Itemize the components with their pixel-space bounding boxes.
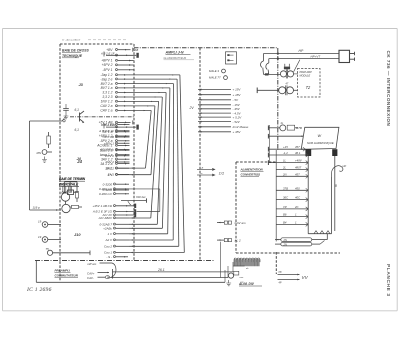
- svg-text:+ 5,2V: + 5,2V: [233, 115, 243, 119]
- svg-text:CAV-: CAV-: [87, 276, 94, 280]
- svg-text:TECHNIQUE: TECHNIQUE: [62, 54, 83, 58]
- svg-text:457: 457: [295, 145, 300, 149]
- wire loop 7: [151, 101, 159, 218]
- separator dash-dot J3/J4: [70, 116, 134, 118]
- transistor Q1: [61, 193, 69, 201]
- svg-text:AMPLI J-N: AMPLI J-N: [165, 51, 184, 55]
- speaker W SUB HARMONIQUE: [301, 127, 339, 149]
- boundary dash-dot vertical: [277, 48, 279, 150]
- svg-text:450: 450: [295, 186, 300, 190]
- wire 116p feed: [30, 209, 62, 211]
- alim row 37B 450: [276, 189, 308, 191]
- bus vertical left: [269, 125, 271, 163]
- svg-text:CONVERTISS: CONVERTISS: [241, 172, 260, 176]
- supply row - 45V: [198, 108, 231, 110]
- svg-text:116 p: 116 p: [33, 205, 41, 209]
- svg-text:+45V 1 AB CD: +45V 1 AB CD: [93, 204, 113, 208]
- svg-text:36C: 36C: [283, 196, 289, 200]
- alim row -1,2 46.1: [267, 153, 269, 158]
- wire speaker right down: [334, 156, 336, 231]
- terminal bar left: [305, 149, 311, 156]
- dash-dot boundary bottom: [35, 260, 214, 262]
- supply row - 15V: [198, 104, 231, 106]
- connector male box: [226, 52, 237, 64]
- svg-text:uwc: uwc: [240, 277, 245, 279]
- junction chevrons: [314, 231, 330, 234]
- svg-text:J4: J4: [77, 159, 82, 164]
- wire cluster top link: [64, 181, 77, 183]
- svg-text:HP am: HP am: [88, 262, 97, 266]
- svg-text:1: 1: [295, 213, 297, 217]
- svg-text:COMMUTATEUR: COMMUTATEUR: [55, 274, 79, 278]
- svg-text:0-3200: 0-3200: [103, 182, 113, 186]
- svg-text:ar: ar: [201, 173, 203, 175]
- svg-text:HF: HF: [343, 164, 347, 168]
- wire left L-bus: [29, 121, 31, 210]
- svg-text:1/1: 1/1: [219, 170, 225, 175]
- svg-text:-3ap 2 e: -3ap 2 e: [100, 77, 112, 81]
- terminal tick B7B: [267, 125, 269, 130]
- svg-text:MN: MN: [37, 151, 42, 155]
- svg-text:AC/ AB2V: AC/ AB2V: [98, 216, 113, 220]
- supply row + 18V: [198, 94, 231, 96]
- ground divider: [226, 280, 231, 286]
- svg-text:2NV 2: 2NV 2: [104, 160, 114, 164]
- svg-text:VP: VP: [283, 205, 287, 209]
- svg-text:ALIM. DIV: ALIM. DIV: [238, 282, 255, 286]
- svg-text:-5PV 1: -5PV 1: [102, 68, 112, 72]
- boundary solid vertical: [275, 150, 277, 241]
- svg-text:+48V: +48V: [295, 159, 303, 163]
- svg-text:2V: 2V: [189, 106, 195, 110]
- junction CAV am: [224, 221, 227, 224]
- svg-text:2C: 2C: [294, 205, 300, 209]
- enclosure MODULE 72: [298, 69, 321, 98]
- resistor left vertical: [47, 136, 51, 144]
- svg-text:3A 1 2: 3A 1 2: [105, 167, 114, 171]
- svg-text:HP+VT: HP+VT: [311, 54, 322, 58]
- svg-text:SUB HARMONIQUE: SUB HARMONIQUE: [307, 141, 334, 145]
- svg-text:46.1: 46.1: [295, 151, 301, 155]
- svg-text:2N: 2N: [283, 238, 287, 242]
- svg-text:J10: J10: [74, 232, 81, 237]
- wire riser low: [220, 242, 222, 278]
- terminal bar right: [332, 149, 337, 156]
- transistor B7B: [280, 125, 286, 131]
- svg-text:AB: AB: [134, 48, 139, 52]
- svg-text:HP: HP: [299, 49, 304, 53]
- svg-text:BAIE DE TERMIN: BAIE DE TERMIN: [59, 177, 86, 181]
- svg-text:A B 2 E 1F: A B 2 E 1F: [100, 51, 115, 55]
- svg-text:CAV+: CAV+: [87, 271, 95, 275]
- loop curve preampli: [111, 263, 116, 277]
- svg-text:B: B: [335, 184, 338, 188]
- svg-text:+B: +B: [201, 167, 204, 169]
- svg-text:19: 19: [38, 220, 42, 224]
- cable pair 2N 2N: [281, 238, 312, 242]
- svg-text:B6: B6: [283, 213, 287, 217]
- supply row - 5V: [198, 99, 231, 101]
- resistor cluster top b: [69, 186, 72, 192]
- alim row 2L 4807: [276, 169, 308, 171]
- svg-text:CAV 2 a: CAV 2 a: [100, 104, 112, 108]
- svg-text:A2 V: A2 V: [104, 238, 113, 242]
- node dot: [63, 120, 65, 122]
- svg-text:CK 736 — INTERCONNEXION: CK 736 — INTERCONNEXION: [386, 51, 391, 127]
- aux return corner: [129, 188, 160, 190]
- svg-text:IC 1 2696: IC 1 2696: [26, 287, 52, 293]
- ground MN: [42, 157, 47, 163]
- resistor B7B: [287, 125, 295, 130]
- svg-text:ALIMENTATION: ALIMENTATION: [240, 167, 264, 171]
- wire to T1: [265, 73, 269, 75]
- wire HP+VT: [269, 58, 339, 60]
- svg-text:PRINCIPALE: PRINCIPALE: [59, 182, 79, 186]
- svg-text:2mV Masse: 2mV Masse: [232, 125, 249, 129]
- alim row B4 1: [276, 223, 308, 225]
- svg-text:3,3 2 3: 3,3 2 3: [102, 95, 112, 99]
- svg-text:+15: +15: [283, 145, 288, 149]
- wire loop 6: [157, 97, 162, 224]
- boundary dashed lower: [275, 252, 277, 274]
- svg-text:- S -: - S -: [106, 255, 112, 259]
- junction bar preampli: [112, 269, 114, 279]
- svg-text:PLANCHE 3: PLANCHE 3: [385, 264, 391, 297]
- svg-text:2N: 2N: [282, 172, 288, 176]
- wire HP: [264, 53, 340, 55]
- wire loop 4: [168, 88, 170, 234]
- svg-text:MALE 77: MALE 77: [209, 76, 221, 80]
- wire loop 5: [162, 93, 166, 229]
- resistor cluster top a: [63, 186, 66, 192]
- alim row 2N 457: [276, 175, 308, 177]
- svg-text:47: 47: [286, 83, 289, 86]
- wire loop 9: [146, 111, 152, 169]
- ground under capacitor: [64, 113, 69, 119]
- svg-text:+5PV 1: +5PV 1: [104, 141, 115, 145]
- svg-text:2N: 2N: [283, 243, 287, 247]
- alim row 1L +48V: [267, 160, 269, 165]
- svg-text:0-300 mV: 0-300 mV: [99, 192, 113, 196]
- svg-text:40C: 40C: [295, 196, 301, 200]
- supply row + 5,2V: [198, 116, 231, 118]
- svg-text:457: 457: [295, 172, 300, 176]
- transistor Q2: [62, 204, 70, 212]
- svg-text:+BPV 1: +BPV 1: [101, 59, 112, 63]
- svg-text:37B: 37B: [283, 186, 288, 190]
- supply row - 52V: [198, 121, 231, 123]
- wire bus c with corner: [36, 281, 225, 283]
- transformer T1: [280, 71, 286, 77]
- svg-text:4807: 4807: [295, 166, 302, 170]
- svg-text:J3: J3: [79, 82, 84, 87]
- svg-text:B7B: B7B: [296, 126, 302, 130]
- svg-text:-1,2: -1,2: [283, 151, 288, 155]
- winding comb: [234, 258, 260, 266]
- supply row - 4,5V: [198, 112, 231, 114]
- svg-text:PREAMPLI: PREAMPLI: [55, 268, 71, 272]
- svg-text:AG/ BBVc: AG/ BBVc: [99, 148, 114, 152]
- wire bottom join: [308, 233, 331, 235]
- svg-text:CAV 1 a: CAV 1 a: [100, 109, 112, 113]
- svg-text:HF: HF: [279, 271, 283, 274]
- svg-text:2A 1: 2A 1: [107, 173, 115, 177]
- svg-text:PHV 2: PHV 2: [105, 154, 114, 158]
- svg-text:AL 2: AL 2: [234, 239, 241, 243]
- contact hook b: [268, 59, 270, 63]
- resistor cluster mid: [76, 192, 79, 199]
- svg-text:+ 45V: + 45V: [233, 130, 242, 134]
- svg-text:1NV 1 2: 1NV 1 2: [101, 100, 113, 104]
- wire speaker left down: [307, 156, 309, 234]
- junction blobs: [277, 53, 279, 55]
- svg-text:6,1: 6,1: [75, 108, 80, 112]
- svg-text:26.1: 26.1: [157, 268, 165, 272]
- capacitor C: [65, 104, 67, 108]
- svg-text:VV: VV: [302, 275, 309, 280]
- junction AL 2: [224, 239, 227, 242]
- supply row 2mV Masse: [198, 126, 231, 128]
- supply row + 15V: [198, 89, 231, 91]
- svg-text:19: 19: [38, 235, 42, 239]
- transformer T2: [279, 87, 286, 94]
- enclosure ALIMENTATION: [235, 162, 237, 253]
- alim row +15 457: [267, 147, 269, 152]
- wire loop 2: [177, 79, 179, 246]
- contact hook a: [263, 54, 265, 62]
- svg-text:BVT 1 a: BVT 1 a: [101, 86, 113, 90]
- svg-text:B4: B4: [283, 220, 287, 224]
- wire T1 up to HP+VT: [294, 60, 300, 72]
- svg-text:TI - BV G.TBV/T: TI - BV G.TBV/T: [62, 39, 81, 42]
- supply row + 45V: [198, 131, 231, 133]
- svg-text:MODULE: MODULE: [300, 75, 311, 78]
- wire bus a: [113, 271, 234, 273]
- svg-text:Cau 2: Cau 2: [104, 245, 112, 249]
- svg-text:1 V: 1 V: [107, 232, 113, 236]
- svg-text:6,1: 6,1: [75, 128, 80, 132]
- row to speaker slant: [267, 134, 269, 139]
- plug P1: [339, 50, 350, 62]
- svg-text:+5V 1 AB: +5V 1 AB: [101, 123, 114, 127]
- cable bead on CAV-: [105, 276, 109, 279]
- alim row VP 2C: [276, 208, 308, 210]
- wire HF drop: [331, 177, 333, 234]
- svg-text:+2ABc: +2ABc: [103, 227, 112, 231]
- svg-text:4P: 4P: [279, 281, 282, 284]
- svg-text:BAIE DE CROSS: BAIE DE CROSS: [62, 49, 89, 53]
- svg-text:- 5V: - 5V: [233, 98, 240, 102]
- enclosure BAIE DE CROSS dashed box: [59, 44, 61, 281]
- resistor divider: [234, 271, 239, 275]
- svg-text:3,3 1 2: 3,3 1 2: [102, 91, 112, 95]
- svg-text:W: W: [318, 134, 322, 138]
- hook HF: [332, 166, 343, 177]
- svg-text:72: 72: [306, 85, 311, 90]
- svg-text:GLASSOBATTEUR: GLASSOBATTEUR: [164, 56, 187, 60]
- svg-text:+ 15V: + 15V: [233, 88, 242, 92]
- svg-text:1: 1: [295, 220, 297, 224]
- wire bus b: [110, 277, 228, 279]
- svg-text:1L: 1L: [283, 159, 287, 163]
- svg-text:- 52V: - 52V: [233, 120, 241, 124]
- wire loop 1: [180, 75, 184, 253]
- svg-text:+5PV 2: +5PV 2: [102, 63, 113, 67]
- alim row B6 1: [276, 216, 308, 218]
- svg-text:OFF dec: OFF dec: [136, 196, 146, 199]
- divider wires: [232, 262, 234, 272]
- alim row 36C 40C: [276, 199, 308, 201]
- cable leads: [275, 239, 281, 241]
- resistor cluster right: [72, 205, 79, 208]
- wire loop 8: [151, 106, 155, 175]
- svg-text:MALE 3: MALE 3: [209, 69, 219, 73]
- wire loop 3: [172, 84, 174, 240]
- svg-text:2L: 2L: [282, 166, 287, 170]
- svg-text:+ 18V: + 18V: [233, 93, 242, 97]
- transistor divider: [228, 273, 233, 278]
- svg-text:de: de: [246, 268, 249, 270]
- svg-text:A B 2 E 1F: A B 2 E 1F: [98, 129, 115, 133]
- svg-text:-5PV AB: -5PV AB: [102, 135, 114, 139]
